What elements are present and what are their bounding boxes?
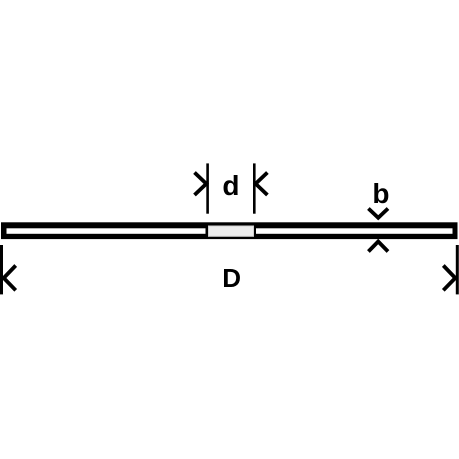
dimension b upper arrow [368, 209, 388, 218]
dimension d left arrow [195, 173, 207, 196]
dimension d right extension line [253, 163, 256, 213]
dimension d right arrow [256, 173, 268, 196]
svg-text:d: d [222, 170, 239, 201]
dimension D right extension line [456, 245, 459, 294]
disc inner stripe left [7, 228, 206, 234]
bore hub (d section) [209, 226, 254, 236]
disc inner stripe right [256, 228, 453, 234]
disc cross-section outer body [1, 222, 458, 239]
dimension D right arrow [443, 266, 455, 291]
dimension D left arrow [4, 266, 16, 291]
dimension d left extension line [206, 163, 209, 213]
svg-text:D: D [222, 263, 241, 293]
dimension b lower arrow [368, 242, 388, 252]
svg-text:b: b [372, 178, 389, 209]
dimension D left extension line [0, 245, 3, 294]
